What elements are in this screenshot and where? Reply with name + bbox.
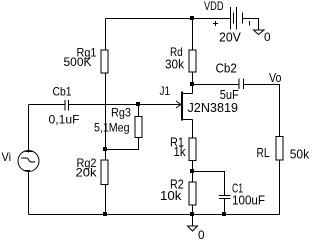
wire drain node to Cb2 <box>193 84 240 86</box>
node junction Rg3-gate <box>136 102 140 106</box>
transistor J1 JFET J2N3819 <box>160 84 239 121</box>
wire gate net from Cb1 to JFET gate <box>69 104 182 106</box>
wire RL bottom to bottom rail <box>279 160 281 215</box>
wire top rail to Rd <box>192 19 194 51</box>
svg-text:20k: 20k <box>76 166 98 180</box>
resistor Rg3 5.1Meg <box>94 105 142 137</box>
wire Rg3 top to gate net <box>138 105 140 117</box>
wire top rail from Rg1 column to battery <box>106 18 231 20</box>
wire from Vi down to bottom rail <box>28 172 30 215</box>
node junction Rg2-rail <box>103 212 107 216</box>
svg-text:0: 0 <box>198 228 205 242</box>
capacitor C1 100uF <box>219 181 265 208</box>
svg-text:VDD: VDD <box>204 0 224 13</box>
svg-text:Cb2: Cb2 <box>216 61 237 76</box>
resistor R1 1k <box>170 134 196 160</box>
svg-text:5,1Meg: 5,1Meg <box>94 121 130 135</box>
svg-text:20V: 20V <box>219 30 241 45</box>
wire left column bottom (Rg2 to bottom rail) <box>105 185 107 215</box>
node junction drain <box>190 82 194 86</box>
wire Rd bottom to drain node and JFET drain <box>192 72 194 94</box>
svg-text:RL: RL <box>257 145 270 160</box>
svg-text:Vi: Vi <box>2 150 12 164</box>
resistor Rg2 20k <box>76 156 109 185</box>
wire R1R2 node to C1 <box>193 172 225 196</box>
wire R1 to R2 <box>192 161 194 183</box>
wire battery to ground <box>243 19 259 31</box>
node junction Rg3-divider <box>103 147 107 151</box>
svg-text:Cb1: Cb1 <box>53 85 72 99</box>
wire JFET source down to R1 <box>192 120 194 139</box>
svg-text:J1: J1 <box>160 84 171 98</box>
svg-text:0: 0 <box>264 30 271 44</box>
svg-text:0,1uF: 0,1uF <box>49 113 80 127</box>
resistor RL 50k <box>257 137 310 162</box>
svg-text:Vo: Vo <box>269 71 282 85</box>
resistor R2 10k <box>160 177 196 205</box>
wire left column middle (Rg1 to Rg2, crosses gate wire, node at y149) <box>105 73 107 160</box>
capacitor Cb2 5uF <box>216 61 244 102</box>
resistor Rd 30k <box>165 45 196 72</box>
resistor Rg1 500K <box>64 45 109 73</box>
wire R2 bottom to bottom rail <box>192 205 194 215</box>
node junction top rail to Rd <box>190 16 194 20</box>
wire from Vi to Cb1 <box>29 104 66 106</box>
node junction R2-ground-rail <box>190 212 194 216</box>
svg-text:10k: 10k <box>160 188 182 203</box>
ground 0 bottom <box>188 215 205 242</box>
svg-text:100uF: 100uF <box>232 194 265 208</box>
svg-text:1k: 1k <box>174 144 186 159</box>
wire left column top (top rail down to Rg1) <box>105 19 107 51</box>
battery VDD 20V <box>204 0 250 45</box>
wire Rg3 bottom to left column <box>106 138 139 150</box>
wire Cb2 to Vo node and down to RL <box>244 85 280 137</box>
ground 0 top right <box>254 30 271 44</box>
node junction R1-R2-C1 <box>190 169 194 173</box>
wire bottom rail <box>29 214 280 216</box>
svg-text:500K: 500K <box>64 55 92 69</box>
svg-text:J2N3819: J2N3819 <box>188 101 239 115</box>
svg-text:Rg3: Rg3 <box>111 105 131 119</box>
capacitor Cb1 0.1uF <box>49 85 80 127</box>
wire C1 bottom to rail <box>224 199 226 215</box>
node junction C1-rail <box>222 212 226 216</box>
svg-text:5uF: 5uF <box>220 87 239 102</box>
svg-text:30k: 30k <box>165 57 184 72</box>
svg-text:50k: 50k <box>290 146 310 161</box>
source Vi sine voltage source <box>2 105 40 172</box>
